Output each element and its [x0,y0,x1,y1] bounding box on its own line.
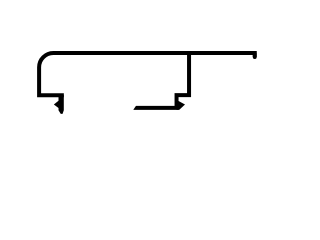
top rail with rounded left corner, left wall and lower lip [39,53,255,95]
profile cross-section drawing [0,0,310,184]
right end hook (rounded tip) [253,53,257,57]
flange left end chamfer [133,105,136,110]
left barbed spike [54,95,64,114]
middle barb [177,100,186,110]
middle upright with step and bottom flange [134,52,190,108]
